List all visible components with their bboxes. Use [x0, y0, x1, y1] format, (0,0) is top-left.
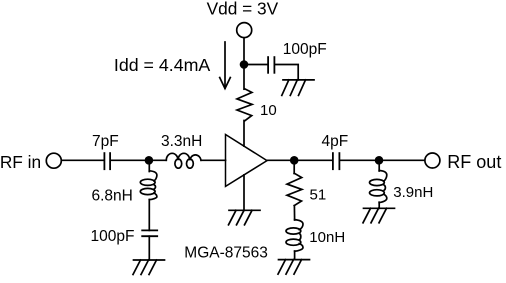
wire C2 to node A [111, 159, 166, 161]
svg-text:4pF: 4pF [322, 133, 349, 150]
arrow Idd [220, 42, 231, 89]
wire node to C1 [244, 64, 267, 66]
wire C3 to ground [148, 236, 150, 260]
wire R1 to amp [243, 121, 245, 147]
ground G2 [229, 210, 261, 225]
ground G1 [282, 80, 314, 96]
svg-text:100pF: 100pF [91, 228, 135, 245]
wire RFin to C2 [62, 159, 104, 161]
resistor R1 10 [237, 89, 252, 121]
wire L2 to C3 [148, 200, 150, 231]
wire node C down [378, 160, 380, 171]
junction node C [375, 156, 384, 165]
svg-text:3.3nH: 3.3nH [161, 133, 202, 150]
wire node B down [293, 160, 295, 173]
svg-text:Vdd = 3V: Vdd = 3V [207, 0, 279, 18]
svg-text:3.9nH: 3.9nH [393, 184, 433, 201]
junction Vdd node [240, 60, 249, 69]
wire amp output to node B [267, 159, 332, 161]
svg-text:100pF: 100pF [283, 41, 327, 58]
svg-text:7pF: 7pF [92, 133, 119, 150]
svg-text:RF in: RF in [0, 152, 41, 172]
capacitor C3 100pF [142, 230, 157, 236]
svg-text:RF out: RF out [447, 152, 501, 172]
resistor R2 51 [287, 173, 302, 205]
terminal RF out [425, 153, 440, 168]
wire C1 to ground [275, 65, 298, 80]
op-amp U1 MGA-87563 [226, 135, 268, 187]
junction node B [290, 156, 299, 165]
svg-text:51: 51 [310, 187, 327, 204]
svg-text:6.8nH: 6.8nH [92, 188, 133, 205]
wire L3 to ground [294, 251, 296, 260]
capacitor C2 7pF [104, 153, 110, 169]
svg-text:10: 10 [260, 102, 277, 119]
ground G3 [133, 260, 165, 275]
inductor L3 10nH [286, 220, 303, 252]
wire C4 to node C [340, 159, 379, 161]
inductor L2 6.8nH [140, 171, 157, 200]
svg-text:MGA-87563: MGA-87563 [184, 245, 268, 262]
svg-text:10nH: 10nH [309, 229, 345, 246]
wire L1 to amp input [201, 159, 226, 161]
wire amp to ground [243, 175, 245, 210]
capacitor C1 100pF [268, 57, 274, 73]
wire Vdd to node [243, 38, 245, 89]
wire node C to RF out [379, 159, 425, 161]
wire node A down [148, 160, 150, 171]
capacitor C4 4pF [333, 153, 340, 169]
terminal RF in [46, 153, 61, 168]
inductor L4 3.9nH [370, 171, 387, 203]
junction node A [145, 156, 154, 165]
terminal Vdd [237, 23, 252, 38]
wire L4 to ground [378, 202, 380, 208]
svg-text:Idd = 4.4mA: Idd = 4.4mA [114, 55, 211, 75]
wire R2 to L3 [293, 206, 295, 220]
ground G5 [363, 208, 395, 223]
inductor L1 3.3nH [166, 153, 201, 168]
ground G4 [278, 260, 310, 275]
